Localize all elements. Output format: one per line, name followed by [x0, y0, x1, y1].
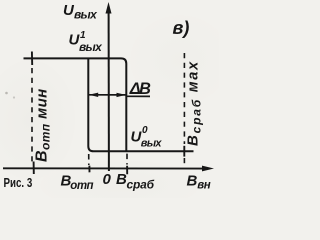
- svg-text:0: 0: [142, 125, 148, 136]
- label delta-B: [129, 80, 151, 98]
- label U_vyh: [63, 2, 98, 21]
- label Ris.3 caption: [4, 177, 33, 191]
- label U0_vyh: [131, 125, 163, 150]
- svg-text:вн: вн: [197, 179, 210, 191]
- label U1_vyh: [69, 30, 104, 54]
- dimension delta-B arrows: [88, 93, 150, 98]
- label B_srab_max rotated: [185, 60, 204, 146]
- label B_srab (axis): [116, 171, 155, 191]
- svg-text:отп: отп: [70, 180, 93, 192]
- svg-text:В: В: [187, 173, 198, 190]
- svg-text:0: 0: [103, 171, 112, 188]
- node B_srab_max dashed vertical: [183, 53, 185, 166]
- svg-text:ΔВ: ΔВ: [129, 80, 151, 98]
- svg-text:в): в): [173, 18, 190, 38]
- paper background: [0, 0, 219, 198]
- label v): [173, 18, 190, 38]
- svg-text:вых: вых: [141, 138, 163, 150]
- axis B_vn (horizontal): [3, 166, 214, 172]
- wire left vertical with corner into bottom U0 level line: [88, 58, 193, 151]
- axis U_vyh (vertical): [106, 2, 112, 171]
- svg-text:Рис. 3: Рис. 3: [4, 177, 33, 191]
- label B_otp_min rotated: [34, 88, 53, 162]
- label 0 (origin): [103, 171, 112, 188]
- label B_vn (axis): [187, 173, 211, 192]
- node B_otp dashed drop to axis: [88, 154, 91, 172]
- svg-text:В: В: [116, 171, 127, 188]
- label B_otp (axis): [61, 172, 94, 192]
- svg-text:вых: вых: [79, 40, 103, 54]
- node B_srab dashed drop to axis: [126, 154, 128, 175]
- svg-text:вых: вых: [74, 8, 98, 22]
- node B_otp_min dashed vertical: [32, 52, 34, 175]
- svg-text:сраб: сраб: [127, 177, 155, 191]
- wire top U1 level line with corner into right vertical: [24, 58, 127, 151]
